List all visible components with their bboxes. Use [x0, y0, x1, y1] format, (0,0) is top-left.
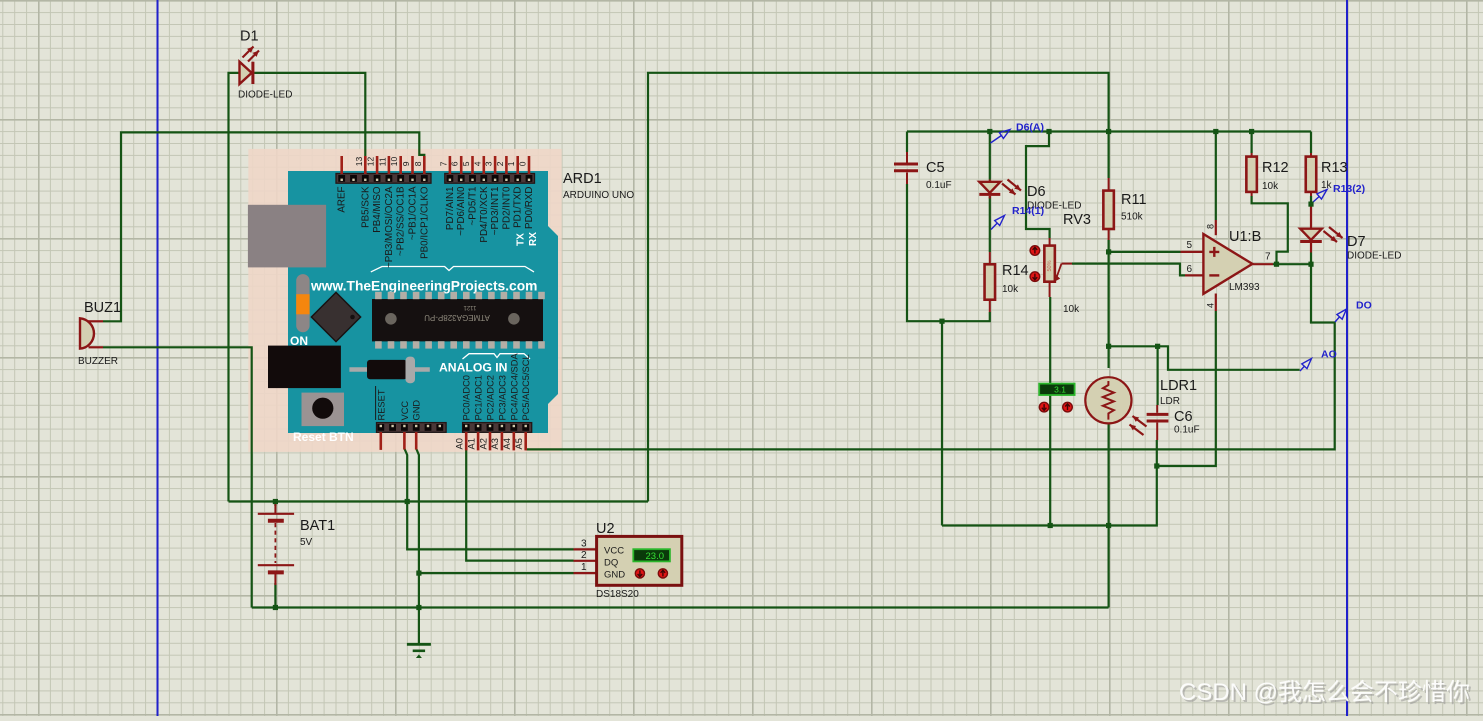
capacitor C6 [1147, 405, 1169, 440]
ARD1 crystal [349, 357, 429, 384]
svg-text:RV3: RV3 [1063, 212, 1091, 228]
resistor R13 [1306, 153, 1317, 196]
svg-text:PB5/SCK: PB5/SCK [360, 186, 371, 228]
svg-text:VCC: VCC [604, 546, 624, 557]
wire: AO node rail [1109, 345, 1158, 347]
ARD1 reset button [302, 393, 345, 427]
junction at 1251.6,131.5 [1249, 129, 1254, 134]
svg-text:ATMEGA328P-PU: ATMEGA328P-PU [424, 313, 490, 322]
ARD1 selection highlight [248, 149, 561, 452]
svg-text:PC3/ADC3: PC3/ADC3 [497, 375, 507, 420]
svg-text:8: 8 [413, 161, 423, 166]
ARD1 analog pin labels A0-A5 [455, 438, 525, 449]
svg-text:R14(1): R14(1) [1012, 205, 1044, 217]
wire: U1 pin 8 riser to VCC rail [1215, 132, 1217, 221]
svg-text:~PB3/MOSI/OC2A: ~PB3/MOSI/OC2A [384, 186, 395, 268]
svg-text:3: 3 [581, 538, 587, 549]
svg-text:A2: A2 [478, 438, 488, 449]
svg-text:GND: GND [412, 400, 422, 421]
svg-text:GND: GND [604, 570, 625, 581]
ARD1 digital pins bracket [371, 267, 534, 272]
svg-text:A3: A3 [490, 438, 500, 449]
svg-text:5: 5 [461, 161, 471, 166]
wire: C6 top lead from AO node [1156, 346, 1158, 405]
svg-text:6: 6 [1186, 264, 1192, 275]
ground symbol [407, 644, 431, 658]
wire: U1 output node to D7 cathode column [1273, 263, 1311, 265]
svg-text:1: 1 [506, 161, 516, 166]
wire: D6 cathode to R14 top [989, 197, 991, 253]
svg-text:9: 9 [401, 161, 411, 166]
svg-text:~PB2/SS/OC1B: ~PB2/SS/OC1B [396, 186, 407, 256]
wire: +5V rail (BAT1+ / VCC pin) [229, 500, 649, 502]
Arduino Uno board ARD1 [288, 171, 558, 433]
wire: D1 anode down left side to +5V rail [229, 73, 240, 502]
svg-text:DQ: DQ [604, 558, 618, 569]
svg-text:ARD1: ARD1 [563, 171, 602, 187]
svg-text:AO: AO [1321, 349, 1337, 361]
ARD1 digital pin name labels left [337, 186, 431, 268]
net pointer R13(2) [1312, 197, 1319, 204]
diode-LED D7 [1300, 204, 1342, 264]
svg-text:D1: D1 [240, 29, 259, 45]
svg-text:Reset BTN: Reset BTN [293, 430, 354, 444]
svg-text:8: 8 [1206, 224, 1216, 229]
ARD1 analog pins bracket [463, 354, 531, 359]
wire: RV3 bottom to lower ground link [1049, 297, 1051, 526]
svg-text:VCC: VCC [400, 401, 410, 421]
ARD1 ATMEGA328P chip [372, 292, 545, 349]
wire: ground link to U1 pin 4 [1157, 311, 1216, 466]
svg-text:PC1/ADC1: PC1/ADC1 [474, 375, 484, 420]
svg-text:PD0/RXD: PD0/RXD [524, 187, 535, 229]
junction at 275.4,501.5 [273, 499, 278, 504]
wire: C6 bottom lead to ground link [1156, 440, 1158, 466]
svg-text:BUZZER: BUZZER [78, 356, 118, 367]
ARD1 digital pin numbers 13-8 [354, 156, 423, 166]
svg-text:R12: R12 [1262, 160, 1289, 176]
svg-text:PD2/INT0: PD2/INT0 [501, 186, 512, 230]
wire: ground symbol stub [418, 608, 420, 645]
wire: ARD1 GND pin down to ground rail [416, 449, 419, 608]
ARD1 USB connector [248, 205, 326, 268]
junction at 1108.6,251.9 [1106, 249, 1111, 254]
ARD1 power header strip [377, 423, 447, 433]
wire: ARD1 A0 to U2 DQ pin 2 [466, 449, 573, 561]
svg-text:CSDN @我怎么会不珍惜你: CSDN @我怎么会不珍惜你 [1179, 679, 1470, 706]
svg-text:A0: A0 [455, 438, 465, 449]
resistor R11 [1103, 178, 1114, 240]
wire: ground rail [252, 606, 1109, 608]
wire: LDR bottom to ground rail riser [1107, 424, 1109, 608]
junction at 407.2,501.5 [405, 499, 410, 504]
wire: D6 anode drop from VCC rail [989, 132, 991, 180]
junction at 1108.6,525.5 [1106, 523, 1111, 528]
svg-text:BUZ1: BUZ1 [84, 300, 121, 316]
battery BAT1 [258, 504, 294, 585]
net pointer DO [1335, 317, 1340, 322]
net pointer R14(1) [991, 223, 997, 229]
svg-text:DIODE-LED: DIODE-LED [1347, 251, 1401, 262]
svg-text:2: 2 [495, 161, 505, 166]
svg-text:PC4/ADC4/SDA: PC4/ADC4/SDA [509, 353, 519, 421]
svg-text:0.1uF: 0.1uF [926, 180, 952, 191]
svg-text:A4: A4 [502, 438, 512, 449]
svg-text:TX: TX [516, 233, 527, 246]
resistor R14 [985, 252, 996, 312]
junction at 418.9,573.1 [416, 571, 421, 576]
svg-text:~PD3/INT1: ~PD3/INT1 [490, 186, 501, 235]
svg-text:7: 7 [438, 161, 448, 166]
svg-text:1121: 1121 [463, 304, 477, 310]
wire: ARD1 VCC pin down to +5V rail and U2 VCC pin 3 [404, 449, 573, 550]
svg-text:2: 2 [581, 550, 587, 561]
svg-text:www.TheEngineeringProjects.com: www.TheEngineeringProjects.com [310, 279, 537, 294]
svg-text:11: 11 [377, 157, 387, 166]
op-amp U1:B LM393 [1181, 220, 1274, 311]
svg-text:5V: 5V [300, 537, 313, 548]
wire: RV3 top loop from VCC rail [1026, 132, 1050, 239]
LDR display readout [1039, 384, 1074, 412]
ARD1 digital header strip left [336, 174, 431, 184]
svg-text:PB4/MISO: PB4/MISO [372, 186, 383, 233]
svg-text:7: 7 [1265, 252, 1271, 263]
svg-text:C5: C5 [926, 160, 945, 176]
svg-text:A5: A5 [514, 438, 524, 449]
svg-text:U1:B: U1:B [1229, 229, 1261, 245]
svg-text:RX: RX [528, 232, 539, 246]
wire: BUZ1 bottom pin to ground rail [103, 347, 252, 607]
CSDN watermark [1179, 679, 1472, 708]
svg-text:PC2/ADC2: PC2/ADC2 [486, 375, 496, 420]
svg-text:R13(2): R13(2) [1333, 183, 1365, 195]
svg-text:C6: C6 [1174, 409, 1193, 425]
wire: lower ground link rail [942, 466, 1157, 526]
svg-text:D6(A): D6(A) [1016, 122, 1044, 134]
svg-text:510k: 510k [1121, 212, 1144, 223]
svg-text:PD7/AIN1: PD7/AIN1 [445, 187, 456, 231]
ARD1 analog header strip [463, 423, 532, 433]
junction at 1050.2,525.5 [1048, 523, 1053, 528]
wire: R13 top lead stub [1310, 132, 1312, 154]
svg-text:PC5/ADC5/SCL: PC5/ADC5/SCL [521, 354, 531, 420]
wire: U1 pin 5 input wire [1109, 251, 1181, 253]
svg-text:D7: D7 [1347, 234, 1366, 250]
svg-text:PD4/T0/XCK: PD4/T0/XCK [479, 186, 490, 243]
svg-text:ANALOG IN: ANALOG IN [439, 361, 507, 375]
svg-text:23.0: 23.0 [646, 551, 665, 562]
svg-text:0: 0 [518, 161, 528, 166]
svg-text:4: 4 [1206, 303, 1216, 308]
ARD1 analog pin name labels [462, 353, 532, 421]
net pointer AO [1300, 366, 1304, 371]
svg-text:13: 13 [354, 156, 364, 166]
svg-text:PB0/ICP1/CLKO: PB0/ICP1/CLKO [419, 186, 430, 259]
ARD1 digital pin name labels right [445, 186, 535, 243]
svg-text:LDR: LDR [1160, 396, 1180, 407]
junction at 989.8,131.5 [987, 129, 992, 134]
wire: R12 bottom feedback to output node [1252, 196, 1288, 264]
svg-text:4: 4 [472, 161, 482, 166]
junction at 1108.6,131.5 [1106, 129, 1111, 134]
wire: BUZ1 top pin to ARD1 pin 8 [103, 132, 424, 321]
junction at 1215.8,131.5 [1213, 129, 1218, 134]
svg-text:ARDUINO UNO: ARDUINO UNO [563, 190, 634, 201]
svg-text:R11: R11 [1121, 192, 1147, 208]
wire: ground drop from C5/R14 rail to lower ground link [941, 321, 943, 525]
diode-LED D6 [979, 180, 1021, 199]
svg-text:R13: R13 [1321, 160, 1348, 176]
ARD1 power pin name labels [376, 386, 422, 421]
svg-text:50%: 50% [1047, 260, 1053, 271]
sheet border line left [157, 0, 159, 716]
net pointer D6(A) [991, 136, 1002, 144]
svg-text:D6: D6 [1027, 184, 1046, 200]
svg-text:3: 3 [484, 161, 494, 166]
svg-text:A1: A1 [466, 438, 476, 449]
ARD1 bottom pin stubs [381, 432, 526, 450]
svg-text:RESET: RESET [376, 389, 386, 420]
wire: BAT1 negative stub to ground rail [274, 583, 276, 608]
svg-text:0.1uF: 0.1uF [1174, 425, 1200, 436]
capacitor C5 [894, 152, 918, 184]
wire: VCC rail of comparator section [907, 130, 1311, 132]
svg-text:DS18S20: DS18S20 [596, 589, 639, 600]
svg-text:10k: 10k [1063, 304, 1080, 315]
junction at 1311,264.2 [1308, 262, 1313, 267]
wire: C5 bottom to R14 bottom rail [907, 184, 990, 321]
ARD1 digital pin stubs [342, 156, 529, 174]
potentiometer RV3 [1030, 238, 1072, 297]
wire: R11 column from VCC rail to U1 pin5 node [1107, 132, 1109, 252]
temperature sensor U2 DS18S20 [574, 536, 682, 585]
svg-text:LM393: LM393 [1229, 282, 1260, 293]
wire: comparator output DO to ARD1 A5 [526, 264, 1335, 449]
wire: R12 top lead stub [1250, 132, 1252, 154]
wire: C5 top lead drop [906, 132, 908, 153]
junction at 1156.8,466 [1154, 463, 1159, 468]
sheet border line right [1346, 0, 1348, 716]
svg-text:10k: 10k [1262, 181, 1279, 192]
junction at 1311,204.1 [1308, 202, 1313, 207]
svg-text:BAT1: BAT1 [300, 518, 335, 534]
svg-text:~PD5/T1: ~PD5/T1 [468, 187, 479, 226]
junction at 942,321.2 [939, 319, 944, 324]
LDR LDR1 [1085, 377, 1146, 435]
svg-text:AREF: AREF [337, 186, 348, 212]
svg-text:PC0/ADC0: PC0/ADC0 [462, 375, 472, 420]
svg-text:3.1: 3.1 [1054, 385, 1066, 395]
svg-text:PD1/TXD: PD1/TXD [513, 187, 524, 228]
svg-text:10: 10 [389, 156, 399, 166]
junction at 1276.5,264.2 [1274, 262, 1279, 267]
ARD1 regulator diamond [311, 292, 360, 341]
wire: U2 GND pin 1 to GND drop [419, 572, 574, 574]
svg-text:10k: 10k [1002, 284, 1019, 295]
svg-text:6: 6 [450, 161, 460, 166]
wire: RV3 wiper to U1 pin 6 [1072, 264, 1185, 276]
junction at 1157.6,346.3 [1155, 344, 1160, 349]
wire: D1 cathode to ARD1 pin 13 [254, 73, 365, 157]
svg-text:U2: U2 [596, 521, 615, 537]
junction at 1108.6,346.3 [1106, 344, 1111, 349]
svg-text:12: 12 [366, 156, 376, 166]
svg-text:~PB1/OC1A: ~PB1/OC1A [408, 186, 419, 240]
svg-text:1: 1 [581, 562, 587, 573]
buzzer BUZ1 [80, 318, 103, 348]
wire: LDR top lead [1107, 346, 1109, 368]
junction at 418.9,607.5 [416, 605, 421, 610]
wire: AO output wire [1158, 346, 1300, 370]
resistor R12 [1246, 153, 1257, 196]
ARD1 digital pin numbers 7-0 [438, 161, 527, 166]
wire: R13 bottom to D7 anode node [1310, 196, 1312, 204]
svg-text:DO: DO [1356, 300, 1372, 312]
svg-text:R14: R14 [1002, 263, 1029, 279]
wire: BAT1 positive stub [274, 502, 276, 507]
svg-text:~PD6/AIN0: ~PD6/AIN0 [456, 186, 467, 236]
svg-text:LDR1: LDR1 [1160, 378, 1197, 394]
wire: pin5 node down to LDR top node [1107, 252, 1109, 346]
svg-text:DIODE-LED: DIODE-LED [238, 90, 292, 101]
ARD1 power jack [268, 346, 341, 389]
wire: +5V riser to top and across to comparator section [648, 73, 1109, 502]
svg-text:5: 5 [1186, 240, 1192, 251]
junction at 275.4,607.5 [273, 605, 278, 610]
junction at 1049,131.5 [1046, 129, 1051, 134]
diode-LED D1 [240, 47, 260, 85]
svg-text:ON: ON [290, 334, 308, 348]
ARD1 digital header strip right [445, 174, 535, 184]
ARD1 ON LED [296, 274, 309, 332]
